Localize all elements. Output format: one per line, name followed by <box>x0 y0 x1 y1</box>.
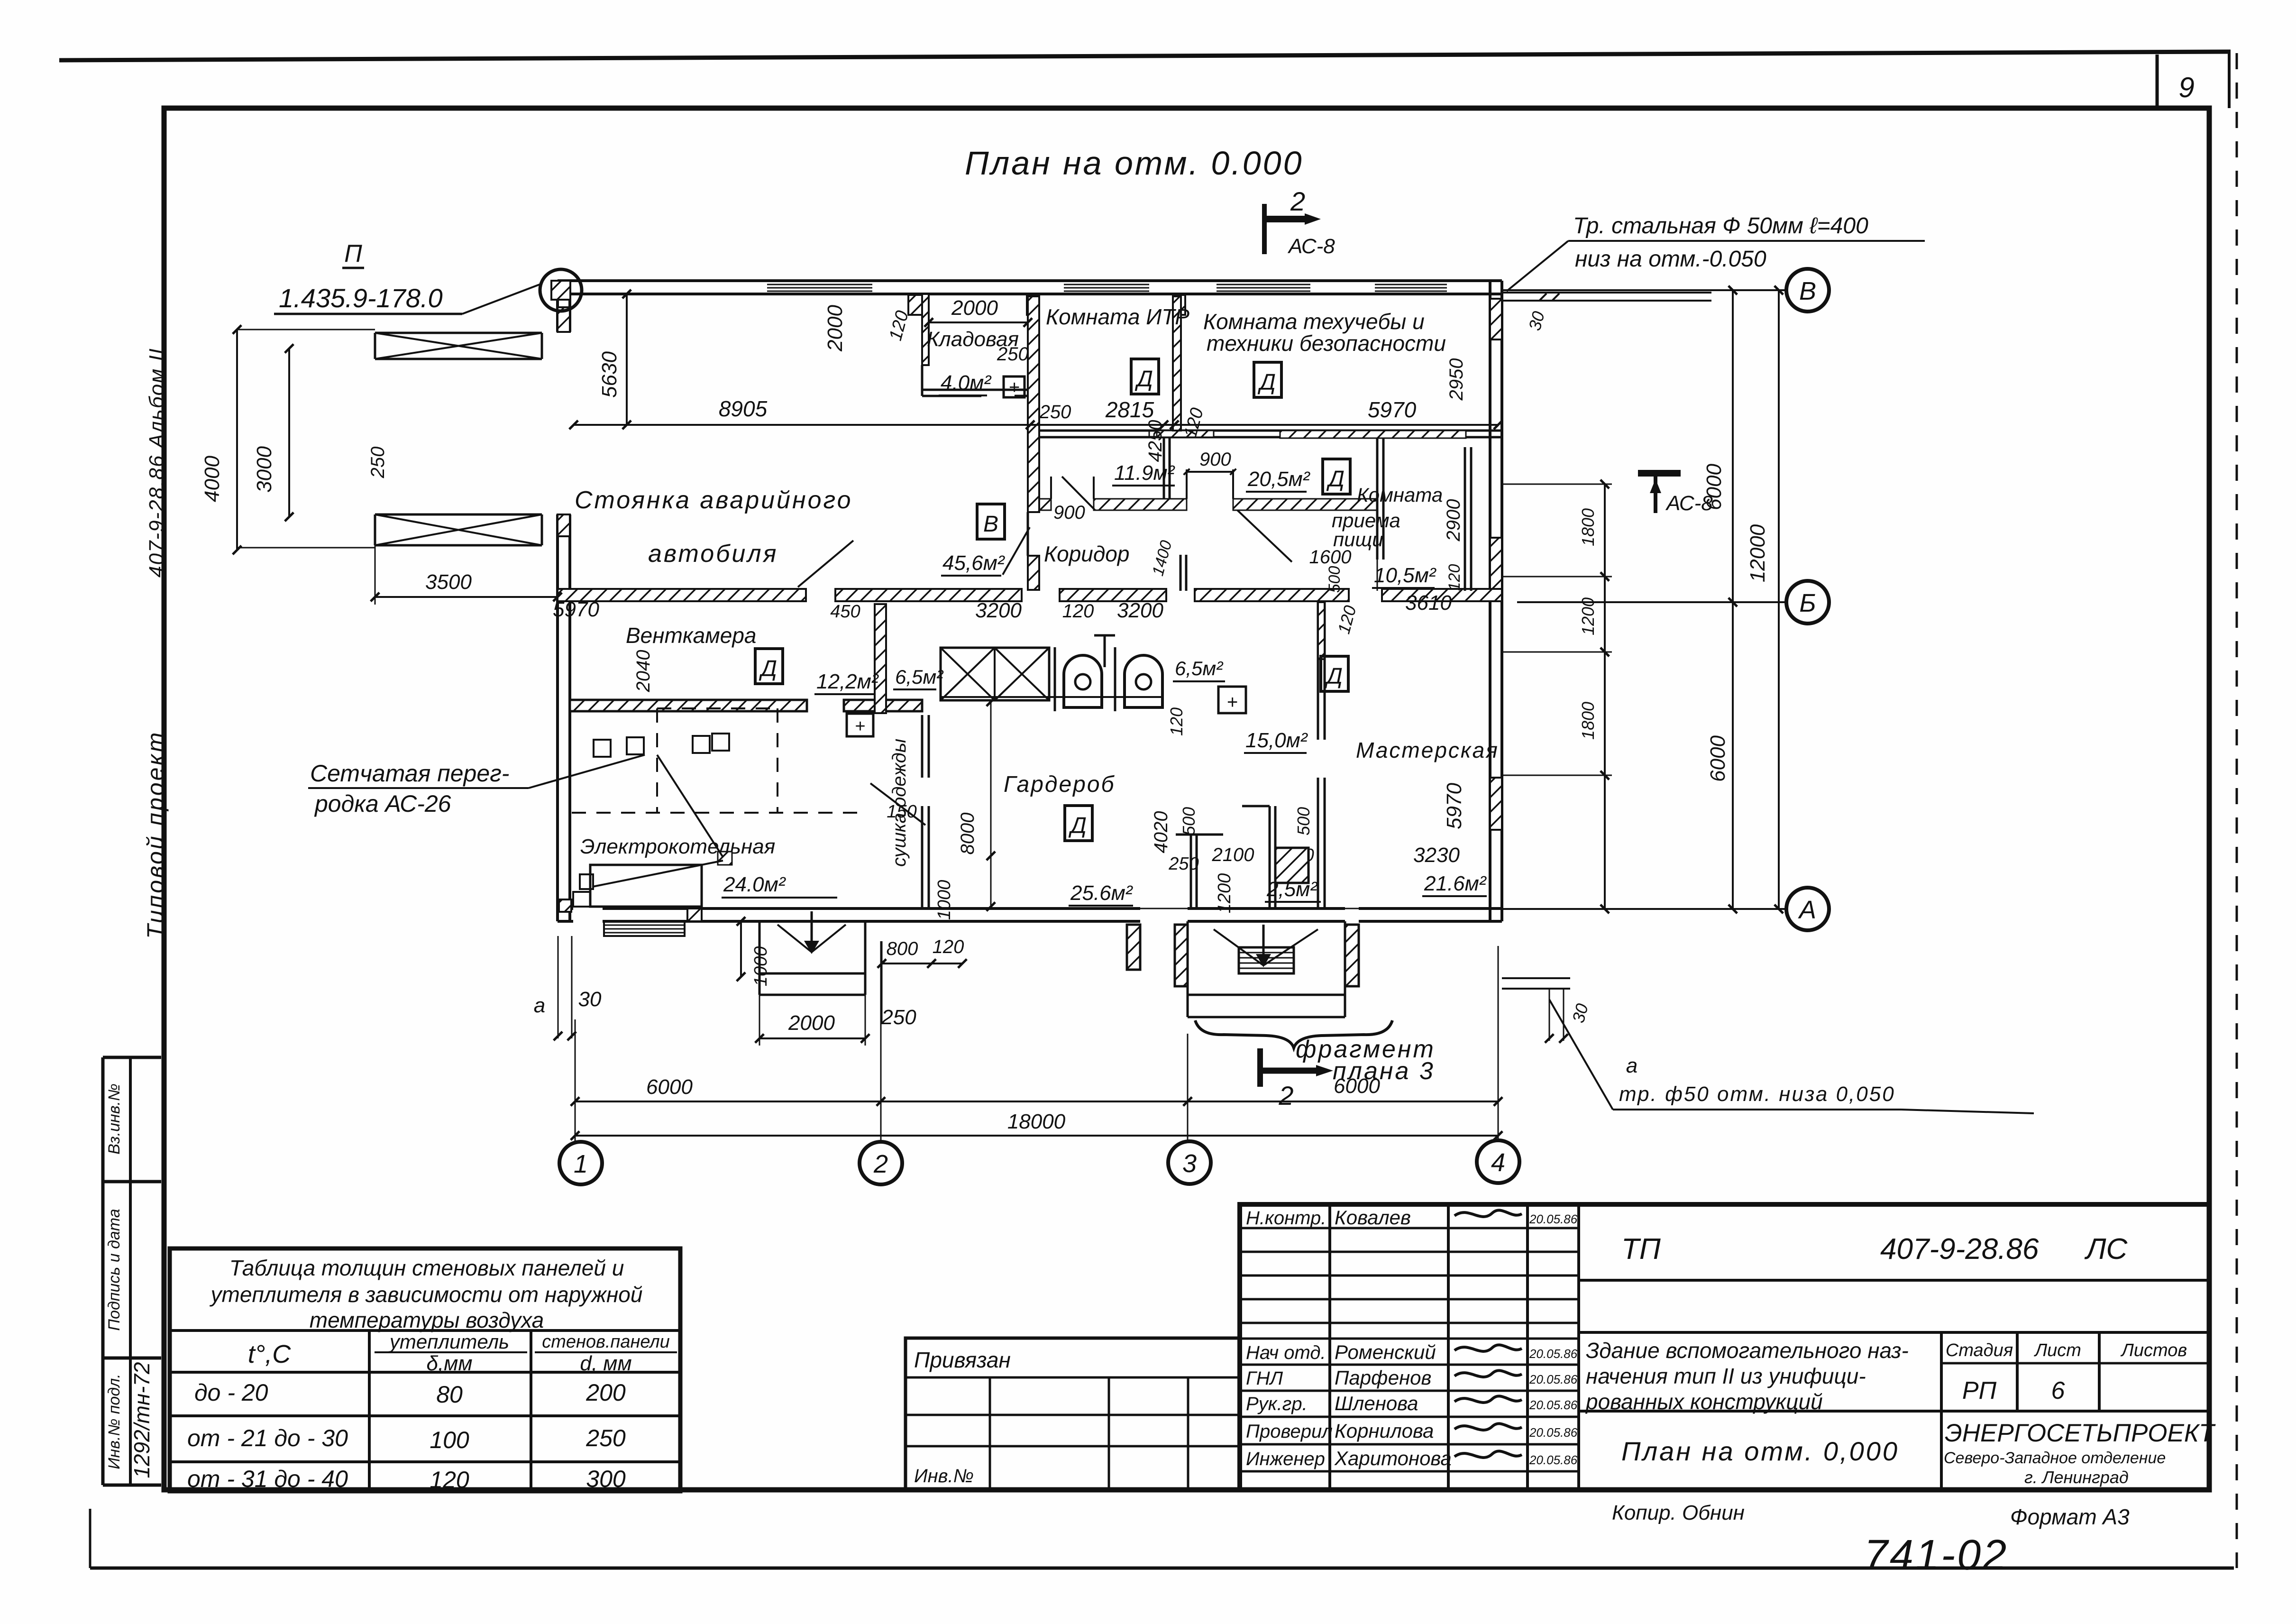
svg-text:20,5м²: 20,5м² <box>1247 468 1310 491</box>
svg-text:2: 2 <box>873 1150 888 1178</box>
svg-text:1000: 1000 <box>934 880 954 920</box>
svg-text:Сетчатая перег-: Сетчатая перег- <box>310 760 509 787</box>
svg-text:П: П <box>344 240 362 267</box>
svg-text:120: 120 <box>1062 601 1094 622</box>
svg-text:1600: 1600 <box>1309 547 1352 568</box>
svg-text:Комната техучебы и: Комната техучебы и <box>1203 309 1425 334</box>
svg-text:Типовой проект: Типовой проект <box>142 731 169 939</box>
svg-text:900: 900 <box>1053 502 1085 523</box>
svg-text:120: 120 <box>430 1467 469 1493</box>
svg-text:температуры воздуха: температуры воздуха <box>310 1308 544 1332</box>
svg-text:5970: 5970 <box>553 598 599 621</box>
svg-text:6000: 6000 <box>1702 464 1726 510</box>
svg-text:24.0м²: 24.0м² <box>723 873 786 896</box>
svg-text:500: 500 <box>1326 566 1344 593</box>
svg-text:Комната ИТР: Комната ИТР <box>1046 304 1189 329</box>
svg-text:Д: Д <box>1326 467 1345 492</box>
svg-text:2950: 2950 <box>1446 358 1467 401</box>
svg-text:утеплитель: утеплитель <box>388 1330 509 1353</box>
svg-text:20.05.86: 20.05.86 <box>1529 1398 1578 1412</box>
svg-text:В: В <box>983 512 998 537</box>
svg-text:2000: 2000 <box>788 1011 835 1035</box>
svg-text:4.0м²: 4.0м² <box>941 371 991 395</box>
svg-text:Копир. Обнин: Копир. Обнин <box>1612 1501 1745 1524</box>
svg-text:5970: 5970 <box>1368 397 1417 422</box>
svg-text:8000: 8000 <box>957 813 978 855</box>
svg-text:Привязан: Привязан <box>914 1348 1011 1372</box>
svg-text:6000: 6000 <box>646 1075 693 1099</box>
svg-text:20.05.86: 20.05.86 <box>1529 1425 1578 1440</box>
svg-text:Коридор: Коридор <box>1044 541 1129 566</box>
svg-text:3230: 3230 <box>1413 844 1460 867</box>
svg-text:Д: Д <box>1134 367 1153 392</box>
svg-text:Корнилова: Корнилова <box>1335 1420 1434 1442</box>
svg-text:Мастерская: Мастерская <box>1356 738 1499 762</box>
svg-text:2900: 2900 <box>1443 499 1464 542</box>
svg-text:+: + <box>1226 692 1237 713</box>
svg-text:741-02: 741-02 <box>1864 1532 2008 1579</box>
svg-text:ЭНЕРГОСЕТЬПРОЕКТ: ЭНЕРГОСЕТЬПРОЕКТ <box>1945 1419 2216 1447</box>
svg-text:20.05.86: 20.05.86 <box>1529 1347 1578 1361</box>
svg-text:150: 150 <box>887 802 916 822</box>
svg-text:начения тип II из унифици-: начения тип II из унифици- <box>1586 1364 1866 1388</box>
svg-text:25.6м²: 25.6м² <box>1070 881 1133 905</box>
svg-text:4000: 4000 <box>201 456 224 502</box>
svg-text:120: 120 <box>933 936 964 957</box>
svg-text:500: 500 <box>1179 807 1198 835</box>
svg-text:10,5м²: 10,5м² <box>1374 564 1436 587</box>
svg-text:утеплителя в зависимости от на: утеплителя в зависимости от наружной <box>210 1282 643 1307</box>
svg-text:500: 500 <box>1294 807 1313 835</box>
svg-text:21.6м²: 21.6м² <box>1424 872 1487 895</box>
svg-text:250: 250 <box>367 447 388 479</box>
svg-text:1000: 1000 <box>751 946 771 987</box>
svg-text:Венткамера: Венткамера <box>626 623 756 648</box>
svg-text:450: 450 <box>830 602 860 622</box>
svg-text:Комната: Комната <box>1357 484 1443 506</box>
svg-text:Инженер: Инженер <box>1246 1449 1325 1469</box>
svg-text:12000: 12000 <box>1746 524 1769 582</box>
svg-text:ГНЛ: ГНЛ <box>1246 1368 1283 1389</box>
svg-text:Д: Д <box>1324 664 1343 689</box>
svg-text:2040: 2040 <box>633 650 654 693</box>
svg-text:Парфенов: Парфенов <box>1335 1367 1431 1389</box>
svg-text:стенов.панели: стенов.панели <box>542 1332 670 1352</box>
svg-text:до - 20: до - 20 <box>194 1379 268 1406</box>
svg-text:6000: 6000 <box>1706 735 1729 782</box>
svg-text:Листов: Листов <box>2120 1340 2187 1360</box>
svg-text:3200: 3200 <box>1117 599 1163 622</box>
svg-text:Северо-Западное отделение: Северо-Западное отделение <box>1944 1449 2166 1467</box>
svg-text:Таблица толщин стеновых панеле: Таблица толщин стеновых панелей и <box>229 1256 624 1280</box>
svg-text:200: 200 <box>585 1379 626 1406</box>
svg-text:20.05.86: 20.05.86 <box>1529 1453 1578 1467</box>
svg-text:План на отм. 0,000: План на отм. 0,000 <box>1621 1436 1899 1466</box>
svg-text:Д: Д <box>1257 370 1276 395</box>
svg-text:ТП: ТП <box>1621 1233 1661 1266</box>
svg-text:800: 800 <box>887 938 918 959</box>
svg-text:Д: Д <box>1068 813 1087 838</box>
svg-text:Роменский: Роменский <box>1335 1341 1436 1363</box>
svg-text:12,2м²: 12,2м² <box>816 670 879 693</box>
svg-text:2815: 2815 <box>1105 397 1154 422</box>
svg-text:11.9м²: 11.9м² <box>1114 461 1175 485</box>
svg-text:30: 30 <box>578 988 602 1011</box>
svg-text:1200: 1200 <box>1215 873 1235 914</box>
svg-text:1.435.9-178.0: 1.435.9-178.0 <box>279 283 443 313</box>
svg-text:А: А <box>1798 896 1816 924</box>
svg-text:плана 3: плана 3 <box>1333 1057 1435 1085</box>
svg-text:2: 2 <box>1278 1081 1293 1110</box>
svg-text:407-9-28.86: 407-9-28.86 <box>1880 1233 2039 1266</box>
svg-text:Подпись и дата: Подпись и дата <box>105 1209 123 1330</box>
svg-text:г. Ленинград: г. Ленинград <box>2024 1468 2129 1487</box>
svg-text:РП: РП <box>1962 1377 1997 1404</box>
svg-text:рованных конструкций: рованных конструкций <box>1585 1389 1823 1414</box>
svg-text:5630: 5630 <box>598 351 621 398</box>
svg-text:d, мм: d, мм <box>580 1352 631 1375</box>
svg-text:Нач отд.: Нач отд. <box>1246 1342 1326 1363</box>
svg-text:ЛС: ЛС <box>2084 1233 2128 1266</box>
svg-text:4250: 4250 <box>1145 420 1166 462</box>
svg-text:15,0м²: 15,0м² <box>1245 729 1308 752</box>
svg-text:3: 3 <box>1182 1149 1197 1178</box>
svg-text:1292/тн-72: 1292/тн-72 <box>129 1362 154 1478</box>
svg-text:АС-8: АС-8 <box>1287 235 1335 258</box>
svg-text:100: 100 <box>430 1427 469 1453</box>
svg-text:2000: 2000 <box>951 296 998 320</box>
svg-text:δ,мм: δ,мм <box>426 1352 472 1375</box>
svg-text:а: а <box>1626 1054 1637 1077</box>
svg-text:250: 250 <box>1039 402 1071 422</box>
svg-text:300: 300 <box>586 1466 626 1492</box>
svg-text:250: 250 <box>585 1425 626 1451</box>
svg-text:Харитонова: Харитонова <box>1334 1447 1452 1469</box>
svg-text:+: + <box>1008 377 1019 398</box>
svg-text:В: В <box>1799 277 1816 305</box>
svg-text:Рук.гр.: Рук.гр. <box>1246 1394 1308 1414</box>
svg-text:1800: 1800 <box>1578 702 1598 740</box>
svg-text:250: 250 <box>997 344 1029 365</box>
svg-text:2100: 2100 <box>1212 844 1254 865</box>
svg-text:8905: 8905 <box>719 396 768 421</box>
svg-text:250: 250 <box>881 1006 916 1029</box>
svg-text:План на отм. 0.000: План на отм. 0.000 <box>965 145 1304 182</box>
svg-text:Гардероб: Гардероб <box>1004 772 1116 797</box>
svg-text:4020: 4020 <box>1151 811 1171 853</box>
svg-text:Лист: Лист <box>2033 1340 2081 1360</box>
svg-text:6: 6 <box>2051 1377 2065 1404</box>
svg-text:20.05.86: 20.05.86 <box>1529 1212 1578 1226</box>
svg-text:6,5м²: 6,5м² <box>895 666 944 688</box>
svg-text:t°,C: t°,C <box>248 1340 292 1368</box>
svg-text:от - 21 до - 30: от - 21 до - 30 <box>187 1425 348 1451</box>
svg-text:Вз.инв.№: Вз.инв.№ <box>105 1083 123 1155</box>
svg-text:Д: Д <box>759 656 777 681</box>
svg-text:120: 120 <box>1445 564 1464 591</box>
svg-text:4: 4 <box>1491 1148 1505 1177</box>
svg-text:1800: 1800 <box>1578 508 1598 546</box>
svg-text:9: 9 <box>2178 72 2194 103</box>
svg-text:3500: 3500 <box>425 570 472 594</box>
svg-text:250: 250 <box>1168 854 1198 874</box>
svg-text:3200: 3200 <box>975 599 1022 622</box>
svg-text:Инв.№ подл.: Инв.№ подл. <box>105 1374 123 1469</box>
svg-text:3000: 3000 <box>253 446 276 493</box>
svg-text:Ковалев: Ковалев <box>1335 1206 1411 1229</box>
svg-text:а: а <box>534 994 545 1017</box>
svg-text:6,5м²: 6,5м² <box>1175 657 1224 679</box>
svg-text:1: 1 <box>574 1150 588 1178</box>
svg-text:80: 80 <box>436 1381 463 1408</box>
svg-text:Шленова: Шленова <box>1335 1392 1418 1414</box>
svg-text:Н.контр.: Н.контр. <box>1246 1208 1326 1229</box>
svg-text:2000: 2000 <box>823 305 847 352</box>
svg-text:20.05.86: 20.05.86 <box>1529 1372 1578 1386</box>
svg-text:Стадия: Стадия <box>1946 1340 2013 1360</box>
svg-text:120: 120 <box>1167 707 1186 736</box>
svg-text:тр. ф50 отм. низа 0,050: тр. ф50 отм. низа 0,050 <box>1619 1083 1895 1106</box>
svg-text:Б: Б <box>1799 589 1816 617</box>
svg-text:Стоянка аварийного: Стоянка аварийного <box>575 486 853 514</box>
svg-text:18000: 18000 <box>1007 1110 1066 1133</box>
svg-text:407-9-28.86 Альбом II: 407-9-28.86 Альбом II <box>145 348 168 578</box>
svg-text:Тр. стальная Ф 50мм ℓ=400: Тр. стальная Ф 50мм ℓ=400 <box>1573 213 1868 239</box>
svg-text:техники безопасности: техники безопасности <box>1207 331 1446 356</box>
svg-text:2: 2 <box>1290 186 1305 216</box>
svg-text:5970: 5970 <box>1443 783 1466 829</box>
svg-text:Инв.№: Инв.№ <box>914 1466 974 1486</box>
svg-text:1200: 1200 <box>1578 597 1598 635</box>
svg-text:+: + <box>855 716 865 736</box>
svg-text:Формат А3: Формат А3 <box>2010 1505 2130 1529</box>
svg-text:Проверил: Проверил <box>1246 1421 1333 1442</box>
svg-text:от - 31 до - 40: от - 31 до - 40 <box>187 1466 348 1492</box>
svg-text:45,6м²: 45,6м² <box>942 551 1005 575</box>
svg-text:900: 900 <box>1199 449 1231 470</box>
svg-text:Электрокотельная: Электрокотельная <box>580 835 775 858</box>
svg-text:родка АС-26: родка АС-26 <box>314 790 451 817</box>
svg-text:Здание вспомогательного наз-: Здание вспомогательного наз- <box>1586 1338 1909 1363</box>
svg-text:низ на отм.-0.050: низ на отм.-0.050 <box>1575 247 1766 272</box>
svg-text:автобиля: автобиля <box>648 540 778 568</box>
svg-text:3610: 3610 <box>1405 591 1452 615</box>
